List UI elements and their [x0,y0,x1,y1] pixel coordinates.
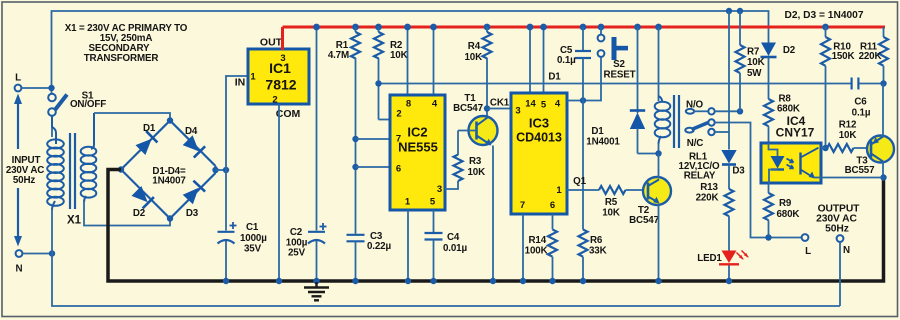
svg-text:R4: R4 [468,41,481,52]
svg-text:D3: D3 [732,166,745,177]
transformer core [69,133,71,209]
svg-text:X1: X1 [67,215,82,227]
resistor R12 10K [827,144,854,152]
node bridge bottom vertex [167,215,173,221]
node C5 junction [580,97,586,103]
svg-text:680K: 680K [777,104,800,115]
svg-text:35V: 35V [244,244,262,255]
node N/O junction R7 [737,108,743,114]
svg-text:14: 14 [525,99,536,110]
svg-text:D1: D1 [548,72,561,83]
node pin6 junction [352,164,358,170]
svg-text:N: N [16,264,23,275]
wire top live bus [52,11,769,94]
capacitor C1 [218,232,235,244]
svg-text:IN: IN [235,77,246,89]
wire live branch D3 column [728,11,730,150]
svg-text:C4: C4 [447,232,460,243]
resistor R6 33K [579,230,588,257]
bridge rectifier frame [121,121,216,219]
wire clock to IC3 pin3 [487,108,511,110]
diode D2 [768,42,770,45]
svg-text:1: 1 [556,185,562,196]
transformer X1 secondary winding [81,113,97,202]
svg-text:NE555: NE555 [398,140,438,155]
svg-text:N: N [843,245,850,256]
svg-text:680K: 680K [777,209,800,220]
svg-text:ON/OFF: ON/OFF [70,99,106,110]
svg-text:D1: D1 [591,126,604,137]
svg-text:5W: 5W [747,68,762,79]
resistor R1 4.7M [352,24,359,31]
svg-text:10K: 10K [464,52,482,63]
svg-text:D2: D2 [783,45,796,56]
relay contact N/C [708,129,714,135]
terminal L input [15,85,22,92]
svg-text:10K: 10K [839,130,857,141]
supply rail +12V red [283,26,886,29]
wire IC2 pin1 to bus [407,210,409,281]
wire T3 emitter up [882,84,884,137]
svg-text:L: L [805,246,811,257]
node T1 collector junction [484,105,490,111]
wire IC3 pin1 Q1 output [567,189,599,191]
label INPUT 230V AC 50Hz [6,155,44,186]
svg-text:D4: D4 [185,126,198,137]
svg-text:R7: R7 [747,47,760,58]
capacitor C6 [852,78,859,90]
svg-text:0.1µ: 0.1µ [557,55,576,66]
switch S1 [48,91,106,116]
transistor T1 BC547 [453,93,497,146]
resistor R5 10K [599,186,626,194]
capacitor C3 [347,235,365,242]
svg-text:7: 7 [520,200,525,211]
svg-text:25V: 25V [288,248,306,259]
svg-text:0.01µ: 0.01µ [443,243,467,254]
node R2 sense junction [375,80,381,86]
timer IC2 NE555 box [407,27,409,95]
wire bridge right vertex to C1 node [216,169,227,171]
wire R6 column [582,101,584,230]
resistor R11 220K [883,27,885,37]
wire N to transformer column [23,253,53,255]
wire common to output L [715,123,802,238]
node sense right junction [880,80,886,86]
IC4 internal phototransistor [801,148,822,179]
wire long sense line [379,83,852,85]
resistor R13 220K [725,189,734,216]
svg-text:R9: R9 [779,198,792,209]
svg-text:5: 5 [430,197,436,208]
svg-text:3: 3 [280,53,285,64]
resistor R4 10K [484,24,491,31]
svg-text:1N4007: 1N4007 [152,176,186,187]
switch S2 reset [598,24,605,31]
svg-text:4: 4 [432,99,438,110]
svg-text:1N4001: 1N4001 [586,137,620,148]
svg-text:R5: R5 [605,197,618,208]
resistor R10 150K [822,24,829,31]
svg-text:2: 2 [272,95,277,106]
svg-text:LED1: LED1 [697,253,722,264]
svg-text:6: 6 [396,164,401,175]
svg-text:1000µ: 1000µ [240,233,267,244]
wire to IC1 input [226,76,251,170]
wire IC3 pin7 to bus [522,214,524,281]
svg-text:CK1: CK1 [490,98,510,109]
svg-text:Q1: Q1 [573,176,586,187]
resistor R9 680K [768,183,770,193]
svg-text:IC2: IC2 [407,125,427,140]
node top bus junction R7 [726,8,732,14]
svg-text:S2: S2 [613,59,625,70]
wire IC3 pin4 reset line [567,57,601,101]
wire C1 node down [225,170,227,231]
IC4 internal LED [769,143,794,183]
svg-text:OUT: OUT [260,37,283,49]
wire primary bottom to N node [51,208,53,254]
svg-text:RESET: RESET [604,70,636,81]
flipflop IC3 CD4013 box [529,27,531,93]
svg-text:D3: D3 [186,208,199,219]
relay RL1 coil [655,24,662,31]
wire L to S1 column [22,87,52,89]
svg-text:2: 2 [396,109,401,120]
wire to IC2 pin7 [356,138,391,140]
terminal L output [802,234,809,241]
svg-text:L: L [15,73,21,84]
capacitor C4 [433,210,435,233]
input down arrow [14,188,22,247]
svg-text:220K: 220K [859,51,882,62]
resistor R8 680K [764,99,773,126]
wire T1 emitter to bus [492,146,494,282]
wire T2 emitter to bus [658,204,660,281]
svg-text:CD4013: CD4013 [516,131,562,145]
node bridge right vertex [212,167,218,173]
transformer X1 primary winding [47,116,64,210]
diode D3 bridge lower-right arm [183,181,205,205]
svg-text:4.7M: 4.7M [328,50,349,61]
diode D3 [721,150,736,164]
resistor R3 10K [445,181,458,189]
transistor T2 BC547 [629,177,671,226]
svg-text:4: 4 [555,99,561,110]
svg-text:10K: 10K [468,167,486,178]
svg-text:100K: 100K [525,246,548,257]
resistor R7 10K 5W [739,11,741,45]
optocoupler IC4 CNY17 box [761,143,821,183]
diode D1 1N4001 [634,24,641,31]
wire to IC2 pin6 [356,166,391,168]
svg-text:R14: R14 [528,235,546,246]
capacitor C5 [580,24,587,31]
svg-text:10K: 10K [390,50,408,61]
wire R2 to IC2 pin2 [379,119,391,121]
wire T2 collector [658,154,660,179]
node bridge top vertex [167,117,173,123]
svg-text:IC3: IC3 [529,116,549,131]
wire IC1 OUT red [281,27,284,50]
svg-text:8: 8 [406,99,411,110]
wire T3 collector down [882,162,884,178]
relay core [673,95,675,148]
svg-text:7812: 7812 [265,77,296,93]
svg-text:1: 1 [405,197,411,208]
svg-text:0.1µ: 0.1µ [852,108,871,119]
node pin7 junction [352,136,358,142]
wire S1 to primary [51,116,53,137]
relay common pole lever [685,128,693,133]
resistor R2 10K [375,24,382,31]
regulator IC1 7812 box [248,49,309,104]
wire IC1 COM to ground bus [278,104,280,281]
node N junction [49,250,55,256]
label C1 plus [230,222,237,229]
svg-text:3: 3 [437,184,442,195]
node bridge left vertex [118,166,124,172]
node opto collector junction [822,145,828,151]
svg-text:150K: 150K [832,51,855,62]
svg-text:3: 3 [515,106,520,117]
wire output N down [839,242,841,306]
diode D4 bridge upper-right arm [183,135,205,157]
node top bus junction D3 branch [737,8,743,14]
svg-text:50Hz: 50Hz [13,175,36,186]
node coil D1 T2 junction [655,150,661,156]
terminal N input [16,250,23,257]
ground symbol [304,282,329,300]
svg-text:5: 5 [541,100,547,111]
svg-text:0.22µ: 0.22µ [367,241,391,252]
node C1 junction [223,167,229,173]
svg-text:1: 1 [250,72,256,83]
node T3 collector junction [880,174,886,180]
svg-text:7: 7 [396,134,401,145]
diode D2 bridge lower-left arm [132,186,154,208]
svg-text:D2, D3 = 1N4007: D2, D3 = 1N4007 [784,10,863,21]
svg-text:BC557: BC557 [845,165,875,176]
svg-text:BC547: BC547 [453,103,483,114]
svg-text:33K: 33K [589,246,607,257]
svg-text:R13: R13 [700,182,718,193]
svg-text:R6: R6 [590,235,603,246]
svg-text:10K: 10K [602,208,620,219]
diode D1 bridge upper-left arm [136,131,158,155]
LED1 [697,251,748,265]
node L junction [48,85,54,91]
svg-text:CNY17: CNY17 [776,126,815,140]
svg-text:220K: 220K [696,193,719,204]
svg-text:N/C: N/C [687,138,703,149]
relay contact N/O [686,109,694,114]
svg-text:D1: D1 [143,123,156,134]
svg-text:R12: R12 [839,120,857,131]
input up arrow [14,94,22,150]
wire IC4 emitter to T3 collector node [821,177,884,179]
svg-text:N/O: N/O [686,100,703,111]
svg-text:10K: 10K [747,57,765,68]
svg-text:TRANSFORMER: TRANSFORMER [84,53,159,64]
wire secondary bottom to bridge [84,200,170,226]
transistor T3 BC557 [845,136,894,177]
terminal N output [837,235,844,242]
note transformer spec text [65,23,188,64]
svg-text:C2: C2 [290,227,303,238]
wire secondary top to bridge [94,113,170,121]
svg-text:D2: D2 [133,208,146,219]
svg-text:50Hz: 50Hz [825,224,849,235]
svg-text:6: 6 [550,200,555,211]
svg-text:C6: C6 [854,97,867,108]
ground black bus [108,170,884,282]
svg-text:RELAY: RELAY [684,171,716,182]
wire IC4 collector pin [821,147,826,149]
svg-text:R3: R3 [469,156,482,167]
capacitor C2 [316,27,318,231]
svg-text:BC547: BC547 [629,215,659,226]
resistor R14 100K [552,214,554,230]
wire neutral bottom line [52,254,840,307]
svg-text:C1: C1 [246,222,259,233]
